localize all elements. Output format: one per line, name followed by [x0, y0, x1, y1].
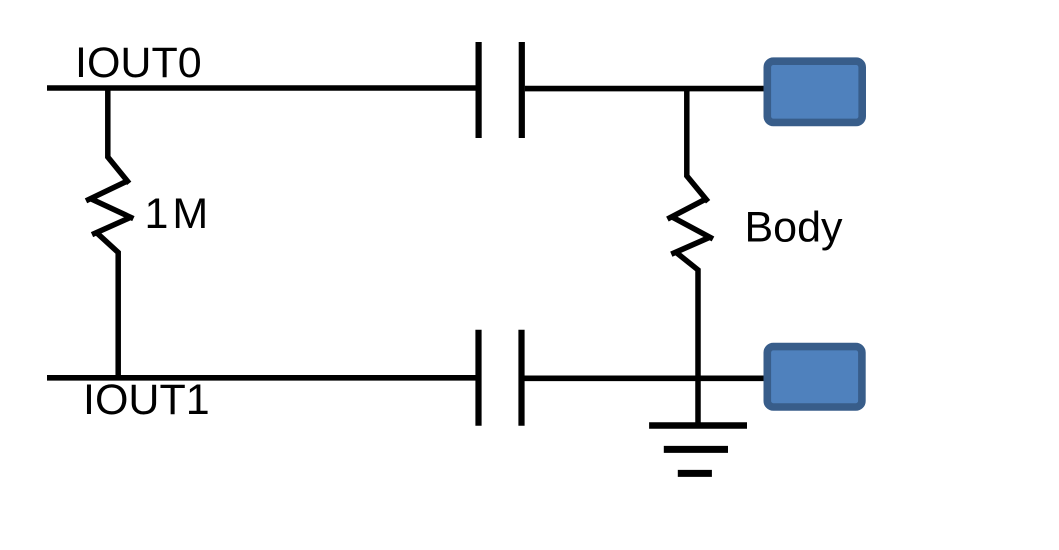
- electrode pad (bottom): [767, 347, 862, 407]
- capacitor C2 left plate: [475, 330, 481, 426]
- capacitor C1 left plate: [476, 42, 482, 138]
- electrode pad (top): [767, 61, 862, 122]
- svg-text:Body: Body: [745, 204, 844, 252]
- svg-text:IOUT0: IOUT0: [75, 39, 202, 87]
- wire (C2 right plate to bottom electrode pad): [525, 375, 764, 381]
- capacitor C1 right plate: [519, 42, 525, 138]
- svg-text:1M: 1M: [145, 190, 213, 238]
- wire IOUT1 (bottom net, left of C2): [47, 375, 476, 381]
- svg-text:IOUT1: IOUT1: [83, 376, 210, 424]
- ground: [649, 426, 747, 474]
- resistor R1 1M (between IOUT0 and IOUT1): [86, 88, 133, 378]
- wire (C1 right plate to top electrode pad): [525, 86, 764, 92]
- capacitor C2 right plate: [518, 330, 524, 426]
- resistor R2 Body (top node to ground): [667, 89, 713, 424]
- wire IOUT0 (top net, left of C1): [47, 85, 476, 91]
